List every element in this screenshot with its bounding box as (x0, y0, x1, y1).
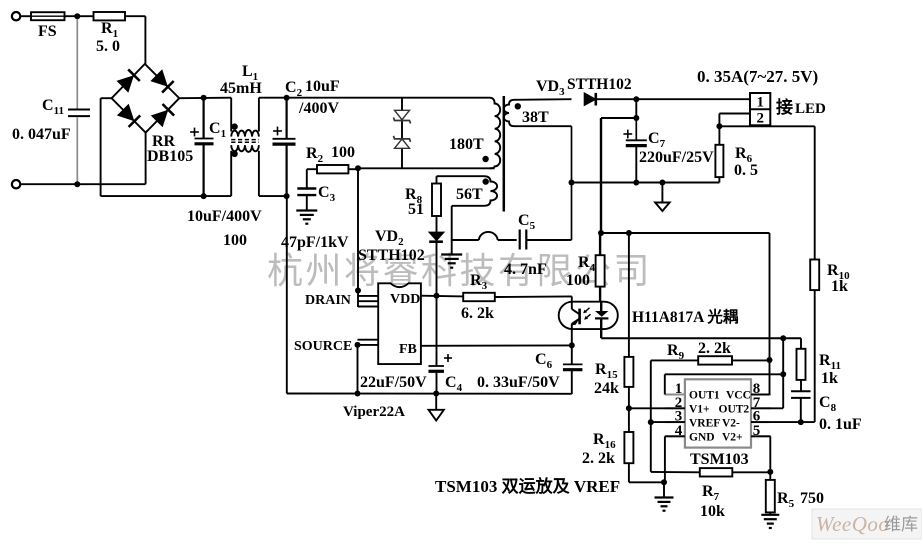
wire (401, 98, 403, 169)
wire (357, 345, 359, 394)
node junction drain (355, 288, 361, 294)
resistor R15 (594, 357, 633, 397)
svg-text:DB105: DB105 (147, 148, 193, 165)
svg-text:接: 接 (776, 97, 793, 117)
wire (436, 216, 438, 232)
svg-text:TSM103: TSM103 (690, 451, 749, 468)
diode VD3 STTH102 (536, 76, 632, 106)
svg-text:45mH: 45mH (220, 80, 262, 97)
svg-text:0. 33uF/50V: 0. 33uF/50V (477, 374, 560, 391)
wire (732, 471, 770, 473)
svg-text:VDD: VDD (390, 292, 420, 307)
wire (601, 232, 629, 234)
inductor L1 45mH (220, 63, 262, 196)
svg-text:VREF: VREF (689, 417, 720, 429)
wire (628, 387, 630, 432)
svg-text:51: 51 (408, 201, 424, 218)
zener diode clamp lower (394, 136, 411, 148)
svg-text:H11A817A 光耦: H11A817A 光耦 (632, 307, 739, 326)
wire (21, 15, 32, 17)
svg-text:FB: FB (399, 342, 417, 357)
svg-text:0. 047uF: 0. 047uF (12, 126, 71, 143)
node junction bridge+/C1 (201, 95, 207, 101)
wire (286, 144, 288, 196)
svg-text:2. 2k: 2. 2k (698, 340, 731, 357)
wire (800, 398, 802, 422)
node junction C11/bottom line (74, 181, 80, 187)
bridge rectifier RR DB105 (112, 64, 194, 165)
svg-text:0. 35A(7~27. 5V): 0. 35A(7~27. 5V) (697, 67, 818, 86)
svg-text:GND: GND (689, 432, 715, 444)
svg-text:OUT1: OUT1 (689, 390, 720, 402)
wire (814, 290, 816, 422)
svg-text:DRAIN: DRAIN (305, 293, 351, 308)
connector J1 to LED (750, 93, 826, 127)
svg-text:56T: 56T (456, 186, 483, 203)
resistor R1 (94, 12, 126, 55)
svg-text:4. 7nF: 4. 7nF (504, 261, 547, 278)
pin drain stubs (358, 296, 378, 307)
wire (259, 97, 287, 99)
watermark (267, 251, 652, 291)
node junction R7/R5/V2+ (767, 469, 773, 475)
svg-text:STTH102: STTH102 (567, 76, 632, 93)
wire (495, 295, 572, 298)
svg-text:维库: 维库 (884, 515, 918, 534)
svg-text:1k: 1k (831, 278, 848, 295)
wire (348, 168, 358, 170)
capacitor C8 (791, 391, 862, 433)
node junction C1/bottom rail (201, 193, 207, 199)
node junction GND (661, 479, 667, 485)
fuse FS (31, 12, 65, 40)
wire (259, 195, 287, 197)
svg-text:SOURCE: SOURCE (294, 339, 352, 354)
svg-text:Viper22A: Viper22A (343, 404, 405, 420)
wire (782, 338, 784, 374)
node AC input terminal top (12, 12, 20, 20)
svg-text:V2-: V2- (722, 417, 740, 429)
svg-text:10uF: 10uF (305, 78, 340, 95)
wire (306, 195, 308, 210)
wire output ground rail (572, 182, 720, 184)
ic U1 Viper22A (294, 283, 421, 420)
node junction VREF (648, 419, 654, 425)
wire (526, 239, 571, 241)
wire (650, 360, 652, 472)
wire (451, 206, 453, 240)
wire (76, 118, 78, 185)
svg-text:180T: 180T (449, 136, 484, 153)
svg-text:OUT2: OUT2 (719, 404, 750, 416)
wire (635, 146, 637, 183)
node junction FB/C6/opto (569, 342, 575, 348)
node junction gnd symbol (659, 180, 665, 186)
transformer secondary winding 38T (504, 99, 572, 126)
wire 38T return (571, 126, 573, 240)
optocoupler U2 H11A817A (559, 302, 739, 329)
resistor R5 (766, 472, 824, 513)
ic U3 TSM103 box (665, 379, 771, 468)
resistor R6 (715, 126, 758, 179)
wire (719, 125, 814, 127)
svg-text:0. 5: 0. 5 (734, 162, 758, 179)
wire (769, 233, 771, 360)
wire (436, 371, 438, 393)
svg-text:220uF/25V: 220uF/25V (639, 149, 714, 166)
wire (718, 177, 720, 182)
resistor R2 (306, 144, 355, 173)
svg-text:0. 1uF: 0. 1uF (819, 416, 862, 433)
wire (125, 15, 145, 17)
transformer primary winding 180T (449, 98, 500, 169)
svg-text:47pF/1kV: 47pF/1kV (281, 234, 349, 251)
svg-text:38T: 38T (522, 109, 549, 126)
ground C3 (296, 211, 317, 224)
resistor R11 (797, 349, 841, 387)
node junction V1+ divider (626, 405, 632, 411)
resistor R16 (582, 431, 633, 467)
node junction R6/pin2 (716, 123, 722, 129)
resistor R4 (566, 233, 605, 289)
wire (601, 117, 636, 119)
svg-text:FS: FS (38, 23, 57, 40)
wire (436, 176, 438, 183)
svg-text:2: 2 (756, 111, 764, 127)
label output rating (697, 67, 818, 86)
wire pin2 V1+ (629, 407, 685, 409)
node junction out1/out2 net (780, 335, 786, 341)
svg-text:1: 1 (756, 95, 764, 111)
wire pin3 VREF (651, 421, 685, 423)
wire pin5 V2+ (751, 436, 770, 472)
wire top rail (287, 97, 490, 99)
wire pin6 V2- (751, 421, 815, 423)
svg-text:6. 2k: 6. 2k (461, 305, 494, 322)
transformer core (503, 96, 506, 212)
wire (600, 329, 602, 338)
node junction R9/VCC (767, 357, 773, 363)
capacitor C4 (360, 354, 463, 394)
wire with jump (452, 232, 517, 240)
wire (599, 287, 601, 312)
svg-text:100: 100 (223, 232, 247, 249)
node junction R4 top (598, 230, 604, 236)
wire (571, 370, 573, 394)
svg-text:1k: 1k (821, 370, 838, 387)
wire (101, 97, 112, 99)
capacitor C2 (273, 78, 340, 144)
resistor R8 (405, 184, 441, 219)
watermark weeqoo (812, 509, 922, 539)
ground 56T/C5 node (441, 240, 462, 268)
wire (145, 133, 147, 185)
wire opto collector (571, 296, 573, 307)
svg-text:750: 750 (800, 490, 824, 507)
svg-text:10k: 10k (700, 503, 725, 520)
wire (306, 169, 308, 187)
label circuit caption (435, 476, 620, 496)
ground primary (triangle) (429, 394, 444, 421)
wire (814, 126, 816, 259)
wire bottom DC rail (101, 195, 232, 197)
resistor R7 (700, 468, 733, 520)
node AC input terminal bottom (12, 180, 20, 188)
node junction C8/V2- (798, 419, 804, 425)
svg-text:/400V: /400V (298, 100, 339, 117)
node junction C2 bottom (284, 193, 290, 199)
svg-text:10uF/400V: 10uF/400V (187, 208, 262, 225)
svg-text:V1+: V1+ (689, 404, 710, 416)
node junction OUT1/OUT2 (780, 371, 786, 377)
transformer aux winding 56T (437, 176, 498, 206)
resistor R10 (810, 260, 850, 296)
zener diode clamp upper (394, 110, 411, 123)
svg-text:5. 0: 5. 0 (96, 38, 120, 55)
node junction R15 feed (626, 230, 632, 236)
capacitor C1 (187, 120, 262, 249)
wire (21, 183, 146, 185)
wire (179, 97, 231, 100)
node junction R2/drain/primary (355, 165, 361, 171)
svg-text:TSM103 双运放及 VREF: TSM103 双运放及 VREF (435, 476, 620, 496)
node junction C7 bottom (633, 180, 639, 186)
svg-text:V2+: V2+ (722, 432, 743, 444)
node junction C7 top branch (633, 115, 639, 121)
node junction source (355, 342, 361, 348)
svg-text:WeeQoo: WeeQoo (816, 512, 889, 536)
capacitor C6 (477, 345, 582, 391)
wire FB line (421, 344, 572, 346)
svg-text:LED: LED (795, 101, 826, 117)
wire (629, 232, 770, 234)
node junction output gnd (569, 180, 575, 186)
wire drain (357, 168, 359, 307)
ground R5 (761, 515, 779, 528)
wire (596, 98, 750, 100)
wire (65, 15, 94, 17)
capacitor C11 (12, 97, 90, 143)
wire (719, 114, 750, 127)
wire (800, 338, 802, 349)
svg-text:100: 100 (566, 272, 590, 289)
wire (436, 296, 438, 366)
node junction fuse/R1/C11 (74, 13, 80, 19)
wire (628, 233, 630, 357)
wire primary bottom line (358, 167, 495, 169)
wire opto emitter (571, 329, 573, 345)
resistor R9 (667, 340, 732, 365)
wire +V drop (600, 118, 602, 233)
wire (436, 242, 438, 296)
wire (651, 471, 700, 473)
node junction source rail (355, 391, 361, 397)
wire pin1 OUT1 (665, 374, 783, 394)
wire (76, 19, 78, 109)
svg-text:VCC: VCC (726, 390, 751, 402)
wire pin8 VCC (751, 360, 770, 395)
svg-text:100: 100 (331, 144, 355, 161)
node junction C4 gnd (433, 391, 439, 397)
svg-text:24k: 24k (594, 380, 619, 397)
wire (800, 380, 802, 391)
wire pin7 OUT2 (751, 374, 783, 408)
wire (203, 144, 205, 196)
capacitor C3 (281, 184, 349, 251)
wire pin4 GND (665, 436, 685, 482)
wire (307, 168, 317, 170)
wire (286, 98, 288, 139)
wire (203, 98, 205, 139)
capacitor C5 (504, 212, 547, 278)
wire opto cathode rail (601, 337, 801, 339)
wire (769, 512, 771, 514)
pin source stubs (358, 340, 379, 345)
wire left border to source rail (286, 196, 288, 393)
wire (635, 99, 637, 118)
wire (732, 359, 770, 361)
ground TSM103 (655, 482, 674, 510)
node junction VD3 out (633, 96, 639, 102)
wire (100, 98, 102, 196)
svg-text:STTH102: STTH102 (358, 247, 425, 264)
diode VD2 STTH102 (358, 228, 444, 264)
svg-text:22uF/50V: 22uF/50V (360, 374, 427, 391)
capacitor C7 (623, 118, 714, 166)
wire source rail (287, 393, 572, 395)
node junction VDD/VD2/C4 (434, 293, 440, 299)
wire (629, 463, 664, 482)
svg-text:2. 2k: 2. 2k (582, 450, 615, 467)
wire (144, 16, 146, 64)
resistor R3 (461, 272, 495, 322)
wire VDD line (421, 295, 463, 298)
ground output (triangle) (655, 183, 670, 212)
wire (651, 359, 698, 361)
node junction L1/C2 top (284, 95, 290, 101)
